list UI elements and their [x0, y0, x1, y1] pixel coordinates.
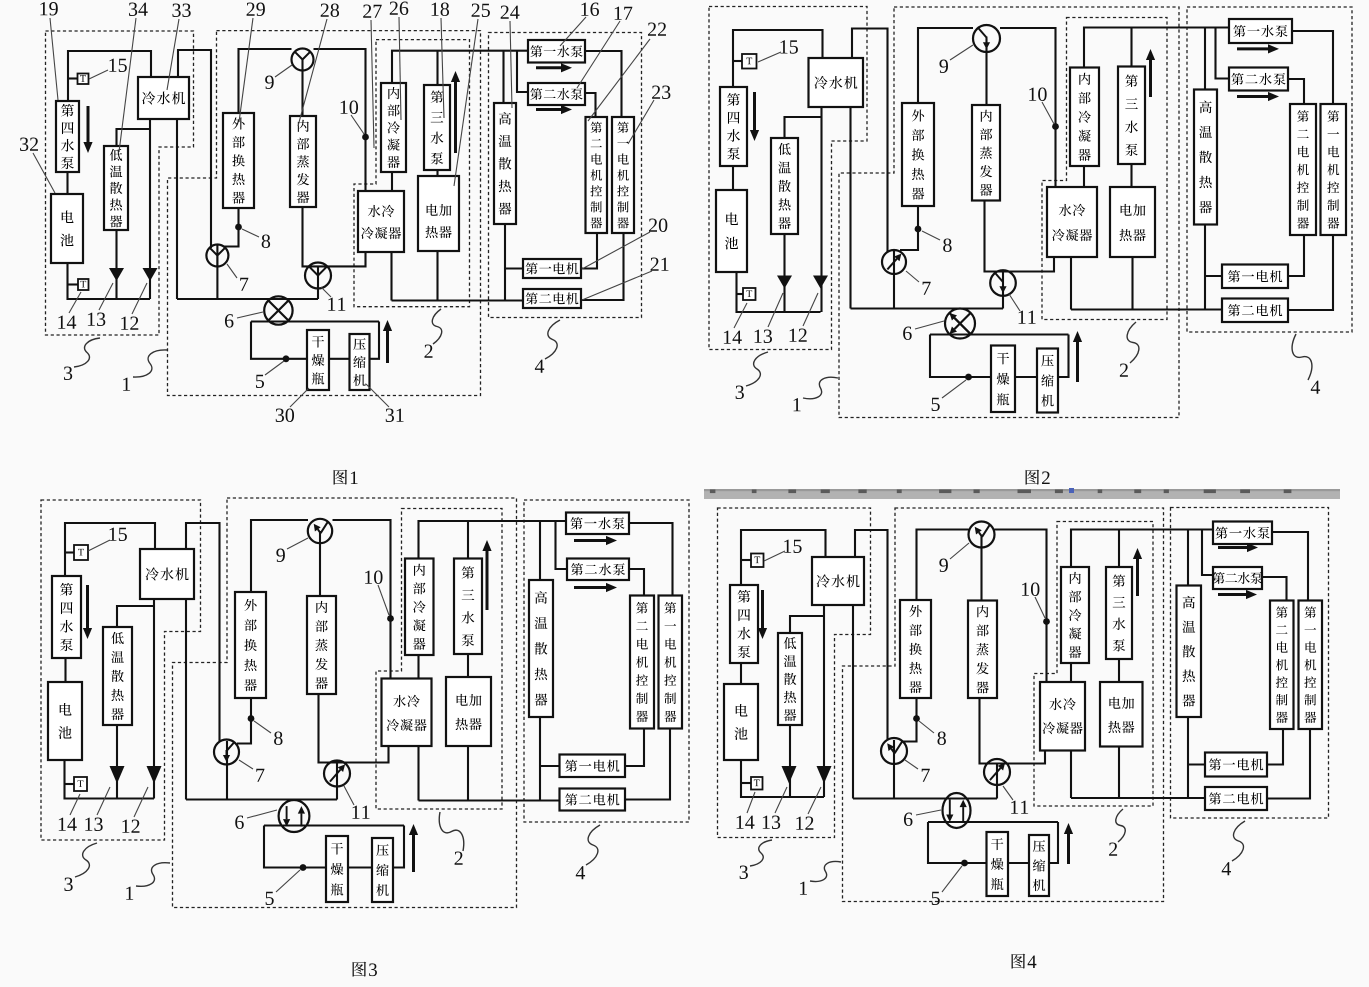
arrow up heater fig4	[1133, 548, 1142, 596]
wire T2 stub fig3	[65, 783, 75, 785]
box 冷水机 fig2	[809, 58, 864, 107]
wire radiator bottom fig4	[789, 725, 791, 797]
dashed region 1 fig2	[839, 7, 1179, 418]
wire drier to compressor	[329, 358, 350, 360]
squiggle 3 fig2	[746, 352, 768, 386]
box 电加热器 fig2	[1110, 187, 1155, 257]
dashed region 4 (motor loop)	[489, 33, 642, 318]
valve 7 fig4	[881, 738, 907, 764]
box 第一水泵 fig4	[1213, 522, 1272, 545]
wire pump3 riser fig3	[467, 521, 469, 559]
wire drier feed fig2	[930, 335, 991, 378]
wire bus2 fig3	[419, 799, 560, 801]
wire pump2 feed fig3	[556, 521, 568, 569]
wire A refrigerant bus	[177, 298, 318, 300]
label 14	[58, 316, 76, 329]
leader 22	[588, 39, 650, 121]
box 干燥瓶 (drier bottle)	[307, 330, 329, 390]
leader 31	[366, 384, 389, 407]
label 6	[225, 314, 234, 327]
wire valve11 stem fig4	[996, 764, 998, 799]
check valve 12 fig2	[813, 276, 828, 289]
wire intcond-wcc fig4	[1070, 663, 1072, 682]
box 第一电机 fig2	[1222, 265, 1288, 289]
wire drier-compressor fig4	[1008, 862, 1029, 864]
label 11 fig3	[352, 806, 369, 819]
box 冷水机 (chiller)	[138, 77, 189, 119]
check valve 13 fig4	[782, 766, 797, 784]
label 23	[652, 86, 670, 99]
wire intcond to wcc	[391, 172, 393, 191]
label 15 fig3	[109, 528, 126, 541]
wire battery top to chiller	[68, 51, 151, 101]
leader 14 fig4	[747, 792, 755, 813]
wire node8 to valve7	[224, 208, 239, 247]
label 7 fig2	[923, 282, 931, 295]
box 第一水泵 fig3	[566, 513, 629, 535]
box 高温散热器 (HT radiator)	[494, 103, 516, 224]
wire pump2 feed	[517, 51, 528, 92]
box 外部换热器 fig2	[902, 103, 934, 206]
leader 15 fig2	[758, 52, 781, 62]
leader 32	[33, 153, 55, 193]
label region 3	[64, 367, 72, 380]
label 9 fig4	[939, 559, 948, 572]
wire T1 stub fig3	[65, 551, 74, 553]
wire valve9 stem fig4	[980, 535, 982, 601]
wire pump1 to controller1	[585, 51, 622, 117]
leader 8 fig2	[922, 231, 940, 240]
label 33	[172, 4, 190, 17]
leader 33	[167, 19, 179, 90]
label 10 fig2	[1029, 87, 1046, 100]
dashed region 2 (heating loop)	[354, 40, 470, 307]
wire A bus fig2	[851, 307, 1004, 309]
label 32	[20, 138, 38, 151]
box 内部蒸发器 fig4	[968, 601, 997, 699]
wire radiator bottom fig3	[116, 725, 118, 799]
wire evaporator to condenser chord	[303, 207, 366, 266]
label 12	[121, 317, 138, 330]
wire pump3 to heater	[436, 170, 438, 176]
check valve 13 fig2	[777, 276, 792, 289]
box 压缩机 fig4	[1029, 835, 1049, 896]
leader 24	[510, 21, 512, 108]
wire pump2 to controller2	[585, 93, 596, 117]
label 14 fig3	[59, 818, 77, 831]
wire valve7 stem fig3	[226, 741, 228, 800]
wire node8 to valve7 fig2	[900, 206, 918, 250]
wire pump2 right fig4	[1262, 577, 1287, 601]
box 第四水泵 fig4	[730, 585, 758, 663]
node 8 fig3	[248, 715, 255, 722]
label 6 fig2	[903, 327, 912, 340]
wire chiller to valve7 fig2	[852, 29, 888, 253]
wire chiller to valve7 fig3	[186, 523, 220, 742]
leader 27	[371, 20, 374, 148]
wire stub to sensor T2	[68, 283, 79, 285]
arrow right pump1 fig4	[1218, 543, 1258, 552]
label region 3 fig3	[64, 878, 72, 891]
valve 9 (three-way)	[292, 49, 314, 71]
wire compressor riser	[370, 322, 380, 359]
arrow right pump2 fig3	[574, 583, 617, 592]
wire mc1 bottom fig3	[625, 729, 670, 800]
wire radiator top fig3	[117, 606, 154, 627]
label 14 fig4	[737, 816, 755, 829]
node 8 fig2	[915, 226, 922, 233]
box 第四水泵 fig3	[52, 576, 81, 658]
leader 14 fig2	[734, 303, 747, 328]
figure 1 schematic	[20, 2, 670, 485]
box 外部换热器 fig4	[900, 600, 931, 698]
wire T2 stub fig2	[737, 293, 744, 295]
box 内部冷凝器 fig2	[1070, 68, 1099, 167]
leader 12 fig3	[134, 787, 148, 817]
squiggle 1 fig2	[803, 377, 838, 398]
leader 6	[237, 312, 263, 318]
leader 14	[69, 292, 81, 313]
label 11 fig2	[1019, 311, 1036, 324]
check valve 12 fig3	[147, 766, 162, 784]
scan artifact gray toolbar band	[704, 488, 1340, 499]
leader 30	[290, 388, 309, 407]
box 电池 fig2	[716, 190, 747, 272]
label 15 fig2	[780, 40, 797, 53]
wire A bus fig4	[853, 797, 997, 799]
node 5 fig3	[300, 864, 307, 871]
box 电加热器 (electric heater)	[418, 176, 459, 251]
squiggle 4 fig2	[1292, 334, 1312, 380]
leader 18	[441, 18, 444, 118]
label 10 fig4	[1022, 582, 1039, 595]
box 第二电机 fig4	[1205, 787, 1267, 810]
leader 7	[227, 264, 237, 278]
box 低温散热器 (LT radiator)	[104, 146, 128, 230]
label 8 fig4	[937, 731, 945, 744]
dashed region 3 fig3	[41, 500, 201, 840]
wire ext-hx top to valve9 fig2	[918, 28, 973, 103]
arrow flow up (heater loop)	[451, 71, 460, 153]
caption 图1	[334, 470, 358, 485]
box 电池 fig3	[48, 682, 82, 760]
sensor T 14 fig4	[751, 777, 763, 790]
node 10 fig4	[1043, 618, 1050, 625]
arrow flow right (pump1)	[536, 63, 572, 72]
wire heater riser fig3	[467, 746, 469, 801]
wire wcc riser fig3	[417, 746, 419, 801]
wire chiller left down	[149, 119, 151, 299]
wire intcond-wcc fig2	[1083, 166, 1085, 187]
dashed region 2 fig3	[376, 509, 502, 810]
label 13 fig3	[85, 818, 102, 831]
wire drier-compressor fig3	[348, 866, 372, 868]
leader 21	[582, 271, 652, 300]
dashed region 1 (refrigerant loop)	[168, 31, 481, 396]
squiggle 4	[545, 320, 560, 359]
wire pump2 feed fig2	[1216, 28, 1230, 79]
leader 13	[99, 283, 113, 310]
wire bus to motor2	[392, 299, 524, 301]
leader 11 fig4	[1003, 786, 1013, 800]
caption 图3	[353, 962, 377, 977]
valve 9 fig3	[308, 519, 332, 543]
arrow up compressor fig2	[1073, 331, 1082, 382]
wire compressor riser fig3	[393, 826, 404, 868]
leader 28	[298, 19, 327, 126]
label 25	[472, 4, 490, 17]
box 第一电机 fig4	[1205, 753, 1267, 777]
box 第二水泵 fig2	[1229, 68, 1288, 91]
wire hot radiator bottom fig4	[1187, 717, 1189, 799]
dashed region 4 fig3	[524, 500, 689, 822]
squiggle 1 fig3	[136, 863, 170, 887]
box 干燥瓶 fig3	[326, 836, 348, 902]
label region 1	[123, 378, 130, 391]
node 5	[283, 355, 290, 362]
wire evap chord fig2	[985, 201, 1055, 272]
leader 14 fig3	[70, 794, 80, 815]
label 5 fig2	[932, 398, 940, 411]
wire battery top fig2	[733, 30, 823, 87]
wire wcc riser fig2	[1070, 257, 1072, 310]
wire valve11 stem fig3	[336, 763, 338, 800]
wire radiator-motor1 fig4	[1188, 763, 1205, 765]
leader 34	[119, 18, 136, 152]
dashed region 3 (battery loop)	[46, 31, 194, 335]
wire pump4-battery fig4	[740, 663, 742, 684]
box 电池 (battery)	[51, 194, 83, 263]
sensor T 15 fig3	[74, 545, 88, 560]
label 22	[648, 23, 666, 36]
wire heater riser fig2	[1131, 257, 1133, 310]
leader 7 fig3	[239, 760, 253, 769]
box 水冷冷凝器 fig3	[382, 679, 432, 747]
wire hot radiator top	[502, 51, 504, 103]
leader 15	[89, 70, 108, 79]
wire controller1 to motor2	[581, 233, 624, 300]
leader 8	[242, 229, 259, 237]
label 12 fig4	[796, 817, 813, 830]
label 19	[40, 2, 57, 15]
figure 4 schematic	[718, 508, 1329, 969]
label 9 fig2	[939, 60, 948, 73]
wire valve9 to water-cooled condenser	[314, 49, 366, 191]
label 6 fig4	[904, 813, 913, 826]
wire valve9 to wcc fig2	[1000, 28, 1056, 187]
wire drier feed fig3	[264, 826, 326, 868]
wire valve9 to wcc fig4	[995, 530, 1047, 683]
box 第二电机 (motor 2)	[523, 289, 581, 308]
squiggle 3	[74, 338, 100, 367]
wire hot radiator top fig2	[1204, 28, 1206, 90]
wire radiator bottom	[115, 230, 117, 299]
leader 12	[132, 283, 147, 314]
wire ext-hx top to valve9	[239, 49, 292, 113]
arrow flow down (battery)	[83, 106, 92, 153]
wire valve9 stem fig2	[985, 39, 987, 106]
wire chiller right down fig2	[849, 107, 851, 309]
squiggle 3 fig3	[75, 843, 97, 877]
box 第四水泵 fig2	[720, 87, 747, 166]
label 5 fig3	[266, 892, 274, 905]
label region 2 fig2	[1120, 364, 1128, 377]
leader 16	[560, 17, 586, 46]
leader 13 fig3	[97, 787, 110, 815]
leader 6 fig2	[915, 321, 944, 329]
label 20	[649, 218, 667, 231]
label 15	[109, 59, 126, 72]
valve 9 fig4	[969, 522, 995, 548]
wire hot radiator top fig3	[539, 521, 541, 580]
wire valve7 stem fig2	[893, 251, 895, 309]
squiggle 1	[133, 350, 167, 377]
wire evap chord fig4	[980, 698, 1046, 764]
leader 5 fig4	[942, 866, 962, 892]
wire B loop fig2	[930, 333, 1069, 335]
leader 17	[577, 21, 620, 88]
arrow right pump1 fig2	[1237, 44, 1279, 53]
label 28	[321, 3, 339, 16]
label 9	[265, 76, 274, 89]
wire ext-hx top to valve9 fig4	[917, 530, 969, 601]
box 内部蒸发器 fig2	[972, 105, 1000, 201]
node 10	[362, 134, 369, 141]
valve 9 fig2	[973, 25, 1000, 52]
wire W1 fig4	[1071, 530, 1213, 568]
arrow up heater fig3	[482, 540, 491, 610]
label 14 fig2	[724, 331, 742, 344]
wire stub to sensor T1	[68, 77, 78, 79]
caption 图2	[1026, 470, 1050, 485]
wire wcc riser fig4	[1070, 751, 1072, 799]
box 高温散热器 fig3	[529, 580, 553, 717]
box 内部蒸发器 fig3	[307, 596, 336, 694]
check valve 12	[143, 268, 158, 281]
label 10 fig3	[365, 570, 382, 583]
wire drier-compressor fig2	[1015, 376, 1037, 378]
leader 11 fig3	[344, 786, 354, 805]
label 21	[651, 258, 669, 271]
node 10 fig2	[1052, 123, 1059, 130]
wire bus2 fig4	[1071, 797, 1205, 799]
box 第一电机 fig3	[560, 755, 626, 778]
wire radiator to motor1	[505, 267, 523, 269]
wire pump1 right fig4	[1272, 532, 1308, 601]
wire chiller right down	[176, 119, 178, 299]
leader 7 fig2	[906, 271, 919, 282]
valve 6 fig2	[945, 309, 975, 339]
wire pump4 to battery	[66, 172, 68, 194]
wire intcond-wcc fig3	[417, 655, 419, 679]
box 低温散热器 fig3	[103, 627, 132, 725]
node 8	[235, 224, 242, 231]
leader 23	[628, 100, 654, 144]
leader 8 fig4	[919, 721, 934, 733]
leader 20	[582, 232, 650, 269]
dashed region 4 fig4	[1171, 508, 1329, 819]
leader 7 fig4	[905, 760, 918, 769]
wire chiller top to valve 7	[178, 50, 211, 248]
box 内部冷凝器 fig4	[1061, 567, 1089, 663]
wire valve9 stem	[301, 60, 303, 117]
arrow flow up (compressor)	[383, 320, 392, 363]
dashed region 2 fig4	[1034, 522, 1153, 807]
wire chiller right down fig3	[185, 599, 187, 800]
box 第二电机 fig2	[1222, 299, 1288, 323]
leader 8 fig3	[254, 721, 271, 733]
box 压缩机 fig3	[372, 838, 393, 902]
wire ext-hx top to valve9 fig3	[251, 520, 308, 592]
label region 4 fig3	[576, 866, 585, 879]
leader 5 fig3	[276, 870, 300, 892]
box 第一电机控制器 fig3	[659, 596, 683, 729]
valve 6 fig3	[279, 800, 310, 832]
label 31	[386, 409, 404, 422]
box 第一水泵 (pump 1)	[528, 40, 585, 63]
wire T1 stub fig2	[733, 60, 742, 62]
leader 9 fig4	[950, 543, 969, 559]
wire B loop fig4	[928, 821, 1058, 823]
wire radiator top fig4	[790, 616, 824, 633]
wire mc1 bottom fig4	[1267, 729, 1310, 799]
wire battery bottom fig4	[741, 760, 824, 797]
leader 12 fig2	[803, 293, 818, 326]
caption 图4	[1012, 954, 1037, 969]
wire radiator-motor1 fig2	[1205, 275, 1222, 277]
wire pump4-battery fig3	[64, 658, 66, 682]
wire pump4-battery fig2	[732, 166, 734, 190]
label 10	[341, 100, 358, 113]
label 7	[240, 278, 248, 291]
box 第三水泵 fig2	[1118, 67, 1145, 165]
wire valve9 stem fig3	[319, 531, 321, 596]
label region 2	[424, 345, 432, 358]
node 5 fig2	[965, 374, 972, 381]
label 27	[363, 5, 382, 18]
leader 19	[50, 18, 58, 100]
box 外部换热器 (external HX)	[223, 113, 254, 208]
squiggle 2	[432, 309, 441, 344]
wire valve11 stem	[317, 266, 319, 299]
dashed region 1 fig3	[173, 498, 517, 908]
valve 7 fig2	[882, 250, 906, 274]
leader 12 fig4	[808, 787, 821, 814]
wire drier feed	[251, 322, 307, 359]
wire B compressor loop top	[251, 320, 379, 322]
box 高温散热器 fig2	[1194, 90, 1217, 225]
label 13	[88, 313, 105, 326]
box 第一电机控制器 (motor controller 1)	[612, 117, 634, 233]
box 水冷冷凝器 (water-cooled condenser)	[358, 191, 404, 252]
box 第三水泵 fig3	[454, 559, 482, 655]
wire heater riser fig4	[1118, 747, 1120, 799]
wire pump3 riser	[436, 51, 438, 85]
wire chiller left down fig2	[820, 107, 822, 312]
label 13 fig4	[763, 816, 780, 829]
leader 10	[351, 115, 364, 134]
wire B loop fig3	[264, 824, 404, 826]
wire W1 top bus	[392, 51, 528, 83]
dashed region 1 fig4	[843, 508, 1164, 902]
box 内部冷凝器 fig3	[405, 559, 434, 656]
box 干燥瓶 fig2	[991, 346, 1015, 413]
wire battery top fig4	[741, 530, 826, 585]
label region 4	[535, 360, 544, 373]
label region 1 fig2	[794, 398, 801, 411]
box 水冷冷凝器 fig4	[1040, 682, 1085, 751]
valve 6 fig4	[943, 793, 971, 828]
